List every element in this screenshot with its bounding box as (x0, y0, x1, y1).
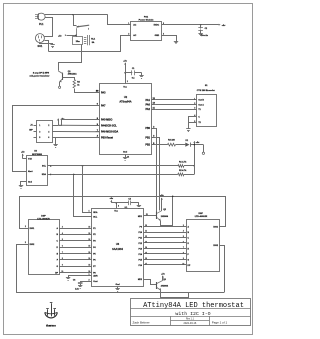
svg-text:1: 1 (25, 226, 26, 228)
svg-text:Zach Bebner: Zach Bebner (133, 321, 150, 325)
svg-text:R2 4.7k: R2 4.7k (179, 169, 187, 172)
svg-text:5: 5 (183, 236, 184, 238)
svg-text:SAA1064: SAA1064 (112, 248, 123, 251)
svg-text:1: 1 (39, 125, 40, 127)
svg-text:16: 16 (145, 258, 147, 260)
svg-text:10: 10 (61, 271, 63, 273)
svg-text:6: 6 (183, 241, 184, 243)
svg-text:R3 220: R3 220 (168, 139, 176, 141)
svg-text:5: 5 (39, 137, 40, 139)
svg-text:3: 3 (39, 131, 40, 133)
svg-text:18: 18 (88, 252, 90, 254)
svg-text:18: 18 (88, 226, 90, 228)
svg-text:4: 4 (62, 232, 63, 235)
svg-text:1: 1 (127, 81, 128, 83)
svg-text:Rev 1.1: Rev 1.1 (186, 318, 195, 320)
svg-text:11: 11 (145, 231, 147, 233)
svg-text:8: 8 (62, 258, 63, 260)
svg-text:2: 2 (25, 242, 26, 244)
svg-text:6: 6 (62, 245, 63, 247)
svg-text:18: 18 (88, 245, 90, 247)
svg-text:11: 11 (146, 214, 148, 216)
svg-text:4: 4 (183, 230, 184, 233)
svg-text:PA4/SCK-SCL: PA4/SCK-SCL (101, 124, 117, 127)
svg-text:PA3: PA3 (101, 91, 106, 94)
svg-text:Power Module: Power Module (139, 20, 155, 22)
svg-text:2N3904: 2N3904 (161, 215, 169, 218)
svg-text:PB3-Reset: PB3-Reset (101, 136, 113, 139)
svg-text:7: 7 (183, 247, 184, 249)
svg-text:1: 1 (89, 211, 90, 213)
svg-text:thermo: thermo (46, 323, 56, 327)
svg-text:AC: AC (133, 34, 137, 37)
svg-text:9: 9 (62, 265, 63, 267)
svg-text:3: 3 (62, 226, 63, 228)
svg-text:ATtiny84A LED thermostat: ATtiny84A LED thermostat (143, 302, 244, 310)
svg-text:with I2C I-O: with I2C I-O (175, 311, 210, 317)
svg-text:2: 2 (194, 103, 195, 105)
svg-text:2N3904: 2N3904 (161, 285, 169, 288)
svg-text:PL1: PL1 (39, 23, 44, 26)
svg-text:DSP: DSP (198, 213, 203, 215)
svg-text:MCP9808: MCP9808 (32, 154, 43, 156)
svg-text:7: 7 (62, 252, 63, 254)
svg-text:DSP: DSP (41, 215, 46, 217)
svg-text:1: 1 (194, 98, 195, 100)
svg-text:ISP: ISP (29, 130, 33, 132)
svg-text:10: 10 (182, 263, 184, 265)
svg-text:8 amp DP 5) NPN: 8 amp DP 5) NPN (33, 72, 50, 74)
svg-text:2: 2 (89, 279, 90, 281)
svg-text:ADR: ADR (93, 275, 98, 278)
svg-text:C6: C6 (73, 280, 75, 282)
svg-text:6: 6 (48, 137, 49, 139)
svg-text:15: 15 (145, 252, 147, 254)
svg-text:SDA: SDA (42, 173, 47, 176)
svg-text:18: 18 (88, 265, 90, 267)
svg-text:3: 3 (118, 205, 119, 207)
svg-text:Out B: Out B (198, 99, 204, 102)
svg-text:10u+1n: 10u+1n (201, 35, 209, 37)
svg-text:1: 1 (89, 274, 90, 276)
svg-text:18: 18 (88, 233, 90, 235)
svg-text:2: 2 (128, 33, 129, 35)
svg-text:PA5-MISO: PA5-MISO (101, 119, 113, 122)
svg-text:14: 14 (145, 246, 147, 249)
svg-text:12: 12 (145, 236, 147, 238)
svg-text:mid-power transistor: mid-power transistor (30, 75, 50, 78)
svg-text:SDA: SDA (93, 211, 98, 214)
svg-text:LTD-4608JR: LTD-4608JR (37, 217, 50, 220)
svg-text:PB0: PB0 (145, 127, 150, 130)
svg-text:GND: GND (155, 35, 160, 37)
svg-text:10: 10 (145, 225, 147, 227)
svg-text:Cext: Cext (93, 280, 98, 283)
svg-text:4: 4 (163, 32, 164, 35)
svg-text:ATtiny84A: ATtiny84A (119, 101, 131, 104)
svg-text:PA0: PA0 (146, 103, 151, 106)
svg-text:2: 2 (48, 125, 49, 127)
svg-text:Gnd: Gnd (123, 152, 128, 154)
svg-text:25m: 25m (76, 41, 80, 43)
svg-text:18: 18 (88, 258, 90, 260)
svg-text:Out A: Out A (198, 103, 204, 106)
svg-text:R1 4.7k: R1 4.7k (179, 160, 187, 163)
svg-text:Page 1 of 1: Page 1 of 1 (212, 320, 228, 324)
svg-text:Gnd: Gnd (116, 284, 121, 286)
svg-text:Alert: Alert (28, 170, 33, 173)
svg-text:3: 3 (194, 108, 195, 110)
svg-text:17: 17 (145, 263, 147, 265)
svg-text:9: 9 (183, 258, 184, 260)
svg-text:SO1: SO1 (38, 45, 43, 48)
svg-text:PA2: PA2 (146, 108, 151, 111)
svg-text:1: 1 (128, 23, 129, 25)
svg-text:0.1: 0.1 (125, 207, 128, 209)
svg-text:PA7: PA7 (101, 104, 106, 107)
svg-text:5: 5 (62, 239, 63, 241)
svg-text:2N6122A: 2N6122A (68, 73, 77, 76)
svg-text:18: 18 (88, 239, 90, 241)
svg-text:3: 3 (183, 225, 184, 227)
svg-text:2022-03-16: 2022-03-16 (184, 322, 197, 325)
svg-text:8: 8 (183, 252, 184, 254)
svg-text:5VDC: 5VDC (154, 25, 160, 27)
svg-text:PB2: PB2 (145, 144, 150, 147)
svg-text:13: 13 (145, 241, 147, 243)
svg-text:LTD-4608JR: LTD-4608JR (195, 215, 208, 218)
svg-text:CTS 288 Encoder: CTS 288 Encoder (197, 90, 215, 92)
svg-text:PB1: PB1 (145, 136, 150, 139)
svg-text:PA6-MOSI-SDA: PA6-MOSI-SDA (101, 131, 118, 134)
svg-text:18: 18 (88, 271, 90, 273)
svg-text:AC: AC (133, 24, 137, 27)
svg-text:PA1: PA1 (146, 99, 151, 102)
